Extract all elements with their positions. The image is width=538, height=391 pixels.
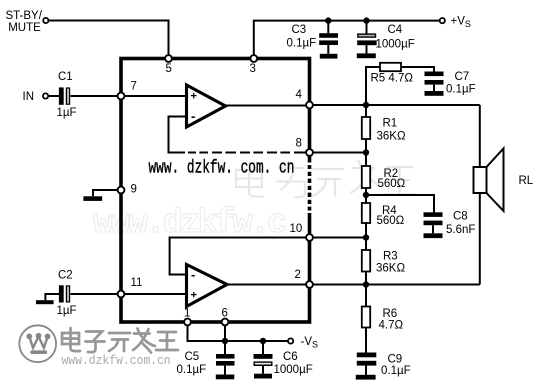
- node R4/R3 junction: [363, 234, 369, 240]
- watermark logo W mark: [26, 333, 50, 354]
- ground C6: [254, 374, 272, 379]
- svg-text:3: 3: [250, 63, 256, 75]
- svg-text:R6: R6: [383, 308, 398, 320]
- svg-text:C3: C3: [292, 24, 307, 36]
- wire IN to C1: [48, 95, 59, 97]
- svg-text:C2: C2: [58, 270, 73, 282]
- svg-text:560Ω: 560Ω: [378, 178, 406, 190]
- svg-text:1000µF: 1000µF: [376, 38, 415, 50]
- capacitor C3: [319, 33, 338, 54]
- svg-text:560Ω: 560Ω: [377, 215, 405, 227]
- terminal ST-BY/MUTE: [43, 18, 48, 23]
- svg-text:+: +: [191, 290, 197, 302]
- pin 10: [306, 234, 313, 241]
- ground C3: [320, 54, 338, 59]
- ground C9: [356, 375, 376, 380]
- pin 6: [222, 319, 229, 326]
- resistor R4: [362, 203, 370, 223]
- svg-text:IN: IN: [23, 91, 35, 103]
- terminal +Vs: [440, 18, 445, 23]
- svg-text:1000µF: 1000µF: [274, 364, 313, 376]
- svg-text:C7: C7: [455, 71, 470, 83]
- pin 7: [118, 93, 125, 100]
- svg-text:36KΩ: 36KΩ: [376, 263, 405, 275]
- svg-text:1µF: 1µF: [57, 107, 77, 119]
- svg-text:C6: C6: [283, 351, 298, 363]
- node C6 junction: [260, 338, 266, 344]
- resistor R1: [362, 117, 370, 139]
- svg-text:R3: R3: [383, 251, 398, 263]
- svg-text:+: +: [191, 91, 197, 103]
- svg-text:7: 7: [131, 81, 137, 93]
- svg-text:36KΩ: 36KΩ: [377, 131, 406, 143]
- pin 5: [165, 55, 172, 62]
- watermark logo circle: [19, 325, 56, 362]
- wire R6 bottom lead: [365, 328, 367, 353]
- wire +Vs rail from pin 3: [254, 21, 440, 55]
- wire C1 to pin 7: [71, 95, 119, 97]
- capacitor C5: [216, 354, 235, 375]
- ground C2: [36, 300, 54, 304]
- wire R1 bottom lead: [365, 139, 367, 153]
- wire pin 4 row to speaker: [313, 104, 480, 106]
- node C4 tap junction: [363, 17, 369, 23]
- wire A2 output to pin 2: [227, 284, 306, 286]
- svg-text:5: 5: [166, 63, 172, 75]
- svg-text:4: 4: [296, 89, 303, 101]
- wire pin 1 to -Vs rail: [188, 326, 288, 342]
- wire pin 2 row to speaker: [313, 284, 480, 286]
- wire R2 top lead: [365, 153, 367, 167]
- capacitor C6 (electrolytic, hollow - plate): [254, 354, 273, 374]
- pin 9: [118, 187, 125, 194]
- ground C7: [425, 91, 444, 96]
- capacitor C1 (input coupling): [59, 87, 70, 104]
- wire C4 stem: [366, 21, 368, 34]
- wire pin 6 down: [224, 326, 226, 342]
- op-amp A2: [187, 265, 228, 307]
- wire A2 feedback (pin 10 net): [170, 238, 307, 275]
- svg-text:C8: C8: [453, 211, 468, 223]
- wire C5 stem: [224, 341, 226, 354]
- svg-text:2: 2: [295, 269, 301, 281]
- wire R3 top lead: [365, 238, 367, 251]
- wire pin 10 to R4/R3 junction: [313, 237, 366, 239]
- ground C5: [216, 375, 235, 380]
- wire R2/R4 junction to C8: [366, 195, 434, 213]
- svg-text:1µF: 1µF: [57, 305, 77, 317]
- wire C6 stem: [262, 341, 264, 354]
- wire R5 left leg: [366, 67, 380, 105]
- pin 2: [306, 281, 313, 288]
- wire speaker vertical: [479, 105, 481, 285]
- svg-text:10: 10: [290, 223, 303, 235]
- wire ST-BY/MUTE to pin 5: [49, 21, 169, 56]
- wire R2 bottom lead: [365, 188, 367, 195]
- svg-text:C5: C5: [185, 351, 200, 363]
- ground C8: [424, 233, 443, 238]
- wire pin 11 to op-amp A2 + input: [124, 293, 187, 295]
- watermark faint cjk outlines: [236, 160, 416, 197]
- pin 8: [306, 149, 313, 156]
- wire pin 7 to op-amp A1 + input: [124, 95, 187, 97]
- resistor R5: [380, 63, 401, 71]
- pin 4: [306, 102, 313, 109]
- wire R5 right leg to C7: [401, 67, 434, 72]
- wire R4 top lead: [365, 195, 367, 203]
- svg-text:-: -: [191, 267, 195, 282]
- capacitor C2: [59, 285, 70, 302]
- svg-text:1: 1: [184, 308, 190, 320]
- wire A1 feedback (pin 8 net): [169, 117, 307, 153]
- IC U1 TDA7265 box: [121, 59, 310, 323]
- capacitor C7: [425, 72, 444, 92]
- node R1 top junction: [363, 102, 369, 108]
- svg-text:RL: RL: [519, 175, 534, 187]
- resistor R2: [362, 166, 370, 188]
- wire pin 9 to ground: [93, 190, 118, 196]
- wire C3 stem: [327, 21, 329, 34]
- svg-text:0.1µF: 0.1µF: [177, 364, 207, 376]
- pin 3: [250, 55, 257, 62]
- wire R4 bottom lead: [365, 223, 367, 238]
- node C3 tap junction: [325, 17, 331, 23]
- capacitor C8: [424, 212, 443, 233]
- wire R6 top lead: [365, 285, 367, 307]
- wire R3 bottom lead: [365, 272, 367, 285]
- ground pin 9: [83, 196, 102, 201]
- node R3/R6 junction: [363, 281, 369, 287]
- pin 11: [118, 291, 125, 298]
- wire C2 to pin 11: [71, 293, 119, 295]
- node R1/R2 junction: [363, 149, 369, 155]
- capacitor C4 (electrolytic, hollow + plate): [357, 33, 376, 53]
- svg-text:4.7Ω: 4.7Ω: [379, 320, 404, 332]
- svg-text:0.1µF: 0.1µF: [381, 365, 411, 377]
- ground C4: [357, 53, 376, 58]
- svg-text:11: 11: [131, 277, 143, 289]
- svg-text:MUTE: MUTE: [8, 22, 41, 34]
- svg-text:8: 8: [296, 138, 302, 150]
- capacitor C9: [357, 353, 377, 375]
- watermark chinese brand text: [62, 328, 178, 353]
- svg-text:R5 4.7Ω: R5 4.7Ω: [371, 72, 414, 84]
- svg-text:C4: C4: [388, 24, 403, 36]
- speaker RL: [474, 149, 504, 212]
- wire break highlights: [185, 151, 313, 213]
- wire pin 8 to R1/R2 junction: [313, 152, 366, 154]
- wire R1 top lead: [365, 105, 367, 117]
- svg-text:0.1µF: 0.1µF: [446, 84, 476, 96]
- svg-text:-: -: [191, 109, 195, 124]
- node R2/R4 junction: [363, 192, 369, 198]
- svg-text:ST-BY/: ST-BY/: [6, 10, 43, 22]
- svg-text:5.6nF: 5.6nF: [446, 224, 475, 236]
- svg-text:www. dzkfw. com. cn: www. dzkfw. com. cn: [149, 157, 295, 178]
- svg-text:0.1µF: 0.1µF: [287, 37, 317, 49]
- svg-text:C9: C9: [388, 354, 403, 366]
- svg-text:www.dzkfw.com.cn: www.dzkfw.com.cn: [62, 353, 171, 368]
- svg-text:C1: C1: [58, 71, 73, 83]
- svg-text:9: 9: [131, 184, 137, 196]
- svg-text:R1: R1: [383, 118, 398, 130]
- svg-text:6: 6: [222, 308, 228, 320]
- pin 1: [184, 319, 191, 326]
- node C5 junction: [222, 338, 228, 344]
- resistor R6: [362, 307, 370, 328]
- terminal IN: [43, 93, 48, 98]
- resistor R3: [362, 250, 370, 272]
- op-amp A1: [187, 85, 226, 127]
- wire ground to C2: [45, 294, 59, 300]
- wire A1 output to pin 4: [226, 105, 307, 107]
- terminal -Vs: [288, 338, 293, 343]
